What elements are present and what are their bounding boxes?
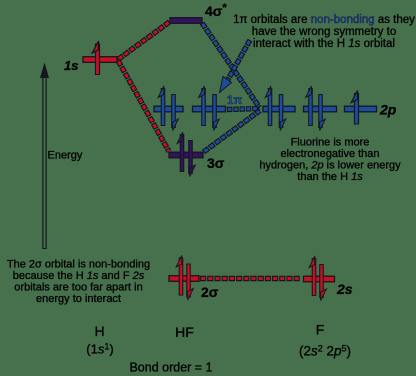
- electron spin-down 1 pi b: [214, 94, 220, 131]
- svg-text:1π: 1π: [227, 95, 242, 107]
- level 3 sigma bonding MO: [169, 152, 203, 158]
- svg-text:The 2σ orbital is non-bonding: The 2σ orbital is non-bonding: [7, 259, 150, 271]
- level 4 sigma* antibonding MO: [170, 18, 202, 24]
- level F 2s: [304, 276, 335, 282]
- electron spin-up F 2p c (single): [351, 91, 357, 125]
- svg-text:have the wrong symmetry to: have the wrong symmetry to: [252, 26, 396, 38]
- annotation arrow pointing to 1 pi orbitals: [220, 40, 251, 93]
- annotation: 1pi orbitals are non-bonding: [233, 14, 415, 50]
- svg-text:1s: 1s: [64, 58, 78, 73]
- svg-text:Bond order = 1: Bond order = 1: [129, 361, 212, 375]
- svg-text:2p: 2p: [379, 102, 397, 118]
- energy axis arrow: [40, 63, 49, 250]
- electron spin-up F 2p b: [306, 86, 312, 126]
- electron spin-down 3 sigma: [190, 140, 196, 177]
- electron spin-up 1 pi b: [199, 86, 205, 126]
- electron spin-down F 2p b: [320, 94, 326, 131]
- level F 2p b: [304, 106, 337, 112]
- label 2s: [336, 281, 353, 297]
- label 1 pi: [227, 95, 242, 107]
- level F 2p a: [263, 106, 295, 112]
- level 2 sigma nonbonding MO: [169, 276, 199, 282]
- label 2p: [379, 102, 397, 118]
- label F electron configuration (2s2 2p5): [299, 344, 351, 359]
- correlation line H1s to 4sigma*: [118, 22, 170, 60]
- correlation line 2sigma to F2s: [200, 276, 300, 281]
- svg-text:(1s1): (1s1): [86, 342, 113, 357]
- label 3 sigma: [207, 155, 225, 171]
- svg-text:F: F: [316, 322, 325, 338]
- electron spin-down F 2p a: [280, 94, 286, 131]
- svg-text:3σ: 3σ: [207, 155, 225, 171]
- electron spin-down 1 pi a: [173, 94, 179, 131]
- electron spin-down 2 sigma: [188, 264, 194, 301]
- svg-text:1π orbitals are non-bonding as: 1π orbitals are non-bonding as they: [233, 14, 415, 26]
- label bond order: [129, 361, 212, 375]
- label 1s: [64, 58, 78, 73]
- svg-text:electronegative than: electronegative than: [280, 148, 379, 160]
- annotation: fluorine electronegativity: [259, 137, 401, 184]
- svg-text:HF: HF: [175, 324, 194, 340]
- correlation line 4sigma* to F2p: [202, 23, 260, 108]
- electron spin-up F 2s: [309, 256, 315, 296]
- svg-text:2s: 2s: [336, 281, 353, 297]
- electron spin-up 3 sigma: [177, 132, 183, 172]
- correlation line 3sigma to F2p: [204, 111, 261, 153]
- label H atom: [94, 323, 104, 339]
- svg-text:orbitals are too far apart in: orbitals are too far apart in: [14, 282, 142, 294]
- label F atom: [316, 322, 325, 338]
- level 1 pi b: [193, 106, 226, 112]
- electron spin-up 1 pi a: [158, 86, 164, 126]
- electron spin-up 2 sigma: [176, 256, 182, 296]
- svg-text:than the H 1s: than the H 1s: [297, 171, 363, 183]
- level H 1s: [83, 57, 117, 63]
- level F 2p c: [345, 106, 377, 112]
- correlation line 1pi to F2p: [227, 109, 260, 110]
- svg-text:Energy: Energy: [48, 150, 83, 162]
- label H electron configuration (1s1): [86, 342, 113, 357]
- label HF molecule: [175, 324, 194, 340]
- svg-text:interact with the H 1s orbital: interact with the H 1s orbital: [253, 38, 395, 50]
- correlation line H1s to 3sigma: [118, 61, 169, 152]
- label Energy: [48, 150, 83, 162]
- svg-text:because the H 1s and F 2s: because the H 1s and F 2s: [13, 270, 145, 282]
- svg-text:Fluorine is more: Fluorine is more: [291, 137, 370, 149]
- svg-text:2σ: 2σ: [201, 284, 219, 300]
- annotation: 2sigma orbital is non-bonding: [7, 259, 150, 306]
- label 4 sigma*: [205, 2, 227, 19]
- electron spin-up F 2p a: [265, 86, 271, 126]
- svg-text:energy to interact: energy to interact: [36, 293, 121, 305]
- electron spin-up H 1s (single): [92, 41, 98, 75]
- label 2 sigma: [201, 284, 219, 300]
- svg-text:hydrogen, 2p is lower energy: hydrogen, 2p is lower energy: [259, 160, 401, 172]
- electron spin-down F 2s: [321, 264, 327, 301]
- svg-text:H: H: [94, 323, 104, 339]
- level 1 pi a: [154, 106, 183, 112]
